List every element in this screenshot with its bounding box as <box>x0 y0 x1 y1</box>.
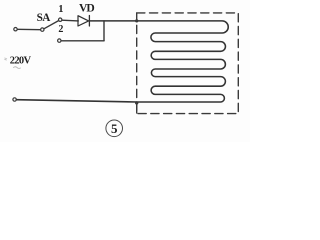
svg-text:2: 2 <box>58 24 63 35</box>
wire contact2 bypass vertical <box>103 21 105 41</box>
contact 1 <box>59 18 62 21</box>
wire contact2 bypass horizontal <box>61 40 104 42</box>
switch SA pivot <box>41 28 44 31</box>
heater element serpentine (from diode output through dashed box) <box>16 21 228 102</box>
junction dot bottom wire / box edge <box>135 101 138 104</box>
terminal top-left (220V live) <box>14 28 17 31</box>
junction dot top wire / box edge <box>135 19 138 22</box>
svg-text:220V: 220V <box>10 56 32 67</box>
switch SA blade <box>44 21 59 29</box>
box left-edge solid segment below bottom wire <box>136 104 138 114</box>
diode VD triangle <box>78 16 89 26</box>
wire terminal to switch pivot <box>17 28 40 30</box>
wire contact1 to diode <box>62 19 78 22</box>
smudge under 220V <box>14 67 21 69</box>
svg-text:5: 5 <box>111 121 118 136</box>
svg-text:1: 1 <box>58 4 63 15</box>
diode VD cathode bar <box>88 16 90 27</box>
terminal bottom-left (220V neutral) <box>13 98 16 101</box>
circled number 5 circle <box>106 120 123 137</box>
tiny mark far left <box>5 58 7 60</box>
dashed enclosure box <box>137 13 239 114</box>
contact 2 <box>58 39 61 42</box>
svg-text:SA: SA <box>37 12 51 24</box>
svg-text:VD: VD <box>79 2 94 15</box>
